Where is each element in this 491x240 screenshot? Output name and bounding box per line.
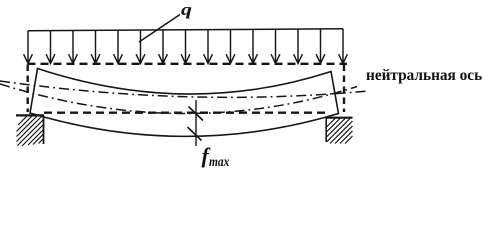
leader line to label q [139, 15, 180, 43]
dashed rectangle: bottom edge [44, 111, 325, 113]
distributed load arrows (15 shafts with open V heads) [24, 29, 348, 64]
label q (distributed load) [181, 0, 192, 20]
load arrow 1 [24, 31, 33, 64]
load line (top of distributed load q) [28, 29, 343, 31]
load arrow 7 [159, 30, 168, 63]
load arrow 10 [226, 30, 235, 64]
label: нейтральная ось (neutral axis) [366, 67, 482, 85]
dashed rectangle: left edge [27, 65, 29, 113]
load arrow 15 [339, 29, 348, 64]
deformed beam outline (solid) [30, 69, 339, 137]
neutral axis of bent beam (curved dash-dot) [0, 84, 357, 114]
load arrow 3 [69, 31, 78, 64]
f_max dimension line [195, 100, 197, 146]
dashed rectangle: right edge [343, 65, 345, 113]
load arrow 9 [204, 30, 213, 64]
load arrow 11 [249, 29, 258, 63]
load arrow 13 [294, 29, 303, 63]
right support: hatched block [326, 118, 353, 144]
load arrow 2 [46, 31, 55, 64]
load arrow 14 [316, 29, 325, 63]
load arrow 5 [114, 30, 123, 63]
dashed rectangle: undeformed beam, top edge [28, 63, 348, 65]
load arrow 4 [91, 30, 100, 63]
load arrow 12 [271, 29, 280, 63]
neutral axis (straight reference, dash-dot, labeled) [0, 81, 368, 97]
left support: hatched block [16, 115, 44, 146]
f_max tick at dashed line [189, 107, 204, 121]
label f_max (maximum deflection) [202, 144, 234, 171]
f_max tick at beam bottom edge [188, 127, 202, 141]
load arrow 8 [181, 30, 190, 64]
load arrow 6 [136, 30, 145, 63]
